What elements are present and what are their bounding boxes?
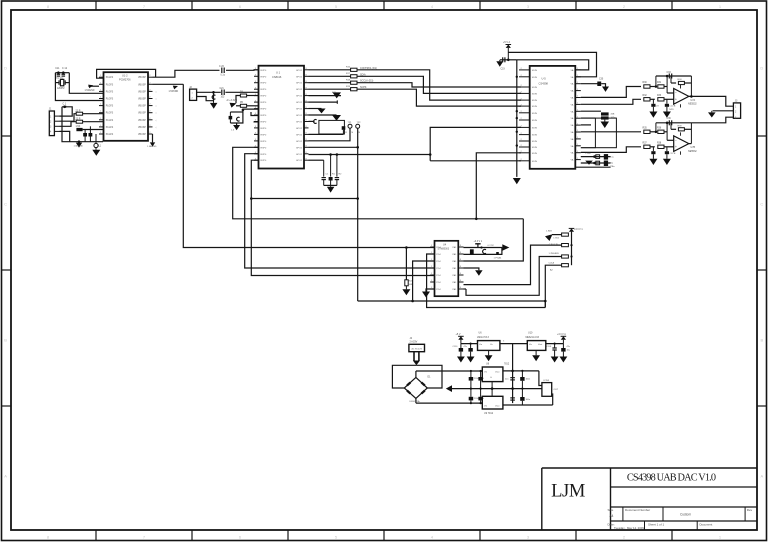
ground arrow xyxy=(551,357,559,363)
U2 right pins xyxy=(148,76,153,78)
opamp input wires xyxy=(667,92,674,94)
capacitor outline xyxy=(596,155,600,159)
svg-text:CS8416: CS8416 xyxy=(272,75,282,79)
svg-text:RXP0: RXP0 xyxy=(261,141,267,143)
U10 gnd xyxy=(535,350,537,355)
cap column with blob xyxy=(309,133,344,135)
svg-text:VBUSP: VBUSP xyxy=(138,84,146,86)
svg-text:Sheet 1 of 1: Sheet 1 of 1 xyxy=(648,522,665,526)
bridge + output up xyxy=(415,371,417,377)
svg-text:RXP0: RXP0 xyxy=(261,122,267,124)
svg-text:GPO2: GPO2 xyxy=(296,160,303,162)
wire U2 out to series cap C20 to U1 pin1 xyxy=(153,70,220,77)
svg-text:SDIN: SDIN xyxy=(532,100,538,102)
svg-text:B: B xyxy=(760,338,763,343)
lower filter caps c13 xyxy=(510,377,515,379)
U2 PCM2706 USB controller xyxy=(104,72,149,141)
wire U1 pin8 stub xyxy=(254,121,259,123)
svg-text:C10 B: C10 B xyxy=(669,106,676,108)
net arrow flag +3.3VD xyxy=(230,103,237,108)
gnd under mute xyxy=(604,120,606,122)
svg-text:GPO2: GPO2 xyxy=(296,109,303,111)
shunt cap C32 with gnd xyxy=(666,99,668,104)
wire U4 pin3R to long loop up to CS4398 xyxy=(464,219,524,261)
wire U4 pin4R small gnd xyxy=(464,268,479,270)
wire U1 pin7 xyxy=(251,112,259,116)
svg-text:CS4398 UAB DAC V1.0: CS4398 UAB DAC V1.0 xyxy=(627,472,716,483)
power flag ladder xyxy=(569,228,574,231)
resistor R39 xyxy=(678,128,684,131)
capacitor outline xyxy=(596,161,600,165)
svg-text:A: A xyxy=(760,474,763,479)
svg-text:Rev: Rev xyxy=(747,508,753,512)
wire loop rectangle xyxy=(319,120,345,134)
wire U1 SDOUT long line to CS4398 xyxy=(309,154,431,156)
J2 2-pin header xyxy=(190,89,197,100)
svg-text:RXP0: RXP0 xyxy=(261,115,267,117)
resistor R33 xyxy=(658,98,664,101)
svg-text:C30: C30 xyxy=(599,79,604,81)
wire R1 to U2 xyxy=(83,113,104,115)
ground arrow under U6reg xyxy=(485,355,493,361)
- rail xyxy=(416,402,482,404)
ground arrow under C24 xyxy=(233,125,240,130)
opamp output node xyxy=(690,76,692,96)
wire U5 AOUTR- xyxy=(581,147,641,153)
svg-text:C 12: C 12 xyxy=(62,67,68,70)
svg-text:VBUSP: VBUSP xyxy=(138,134,146,136)
svg-text:GPO2: GPO2 xyxy=(296,128,303,130)
+5V power flag top xyxy=(506,45,511,48)
border zone ticks top xyxy=(95,1,97,10)
+5V input flag xyxy=(458,336,463,339)
wire U5 AOUTL+ to opamp RC xyxy=(581,87,641,98)
svg-text:B: B xyxy=(4,338,7,343)
svg-text:VBUSP: VBUSP xyxy=(138,91,146,93)
bottom long line to ladder xyxy=(358,300,546,302)
U5 right pins xyxy=(575,69,581,71)
wire R3 to U2 xyxy=(83,129,104,131)
svg-text:45B: 45B xyxy=(611,114,615,116)
wire U1 pin right with gnd arrow A1 xyxy=(309,95,342,97)
capacitor C36 xyxy=(668,120,670,125)
svg-text:GPO2: GPO2 xyxy=(296,134,303,136)
wire R2 to U2 xyxy=(83,121,104,123)
ground arrow under R20 xyxy=(402,289,410,295)
svg-text:R30: R30 xyxy=(643,82,648,84)
U4 controller xyxy=(435,241,459,296)
lower filter caps c14 dark xyxy=(521,371,523,377)
svg-text:12MHZ: 12MHZ xyxy=(57,88,65,90)
wire U4 pin2 loop xyxy=(427,254,546,308)
svg-text:22 R: 22 R xyxy=(76,118,81,120)
+ rail xyxy=(416,370,482,372)
wire -12 to J5 xyxy=(552,393,554,405)
USB connector J1 xyxy=(49,111,54,136)
resistor R5 xyxy=(247,105,259,107)
wire U4 pin3 to bottom line xyxy=(413,261,435,301)
svg-text:VBUSP: VBUSP xyxy=(138,113,146,115)
wire U1 data line 3 with series resistor xyxy=(309,82,351,84)
shunt cap C35 gnd xyxy=(666,147,668,151)
svg-text:1.5K: 1.5K xyxy=(76,126,81,128)
svg-text:GPO2: GPO2 xyxy=(296,154,303,156)
power T flag +3.3V xyxy=(477,244,479,248)
wire U6B output route xyxy=(691,117,733,123)
wire crystal right leg to XTI xyxy=(69,73,103,94)
svg-text:−: − xyxy=(675,139,677,143)
cap C25 xyxy=(323,160,325,176)
svg-text:R31: R31 xyxy=(657,82,662,84)
resistor R37 xyxy=(644,145,650,148)
resistor R31 xyxy=(658,85,664,88)
svg-text:1.5DGND: 1.5DGND xyxy=(74,145,84,147)
svg-text:C33: C33 xyxy=(667,72,672,74)
svg-text:C: C xyxy=(4,202,7,207)
U6B output to J3 xyxy=(690,123,692,144)
test point TP1 xyxy=(309,128,351,141)
wire U6reg out to U10 xyxy=(500,343,527,345)
wire U5 row12 to mute rect corner xyxy=(581,147,596,149)
wire U1 pin15L to under-loop and U4 pin5 xyxy=(251,160,434,275)
svg-text:G: G xyxy=(490,377,492,379)
svg-text:PCM2706: PCM2706 xyxy=(119,78,131,82)
title block row dividers xyxy=(622,507,624,521)
svg-text:GPO2: GPO2 xyxy=(296,96,303,98)
crystal X1 12MHz with load caps C1 C2 xyxy=(55,72,69,74)
svg-text:SDIN: SDIN xyxy=(532,127,538,129)
capacitor blob xyxy=(342,126,346,130)
wire U5 AOUTL- to opamp RC xyxy=(581,99,641,104)
U5 left ground bus xyxy=(516,60,518,177)
svg-text:RXP0: RXP0 xyxy=(261,89,267,91)
svg-text:SDIN: SDIN xyxy=(532,113,538,115)
wire J2 pin2 loop xyxy=(197,92,214,100)
svg-text:+3.3 V 1: +3.3 V 1 xyxy=(474,241,483,243)
svg-text:GPO2: GPO2 xyxy=(296,122,303,124)
net flag mark xyxy=(496,252,499,255)
svg-text:+3.3 V A: +3.3 V A xyxy=(557,333,566,336)
svg-text:SDIN: SDIN xyxy=(532,120,538,122)
net flag +3.3VD near U3 xyxy=(173,86,178,90)
U7 7812 regulator xyxy=(482,367,503,382)
border zone ticks bottom xyxy=(95,530,97,541)
svg-text:RXP0: RXP0 xyxy=(261,83,267,85)
svg-text:PLGFS: PLGFS xyxy=(106,77,114,79)
bridge - output down xyxy=(415,399,417,404)
filter cap bank column2 xyxy=(478,377,483,381)
test point TP2 on long column xyxy=(356,124,360,128)
U1 right pins xyxy=(304,69,309,71)
wire AC loop right xyxy=(416,365,442,388)
decoupling cap C2 xyxy=(83,133,87,137)
svg-text:NE5532: NE5532 xyxy=(688,103,697,106)
svg-text:R35: R35 xyxy=(643,127,648,129)
wire U10 out to +3.3VA flag xyxy=(546,343,564,345)
shunt cap C34 gnd xyxy=(652,147,654,151)
ground arrow C35 xyxy=(663,159,671,165)
svg-text:PLGFS: PLGFS xyxy=(106,106,114,108)
wire AC loop left xyxy=(392,365,416,388)
resistor R1 22R on D- xyxy=(60,114,77,122)
svg-text:R38: R38 xyxy=(657,142,662,144)
mute loop rectangle xyxy=(595,118,616,148)
svg-text:C14B: C14B xyxy=(585,153,591,155)
AC prongs xyxy=(413,352,415,361)
long vertical TP2 column to bottom line xyxy=(357,128,359,301)
svg-text:C19: C19 xyxy=(501,69,506,71)
op-amp U6A xyxy=(674,89,689,105)
svg-text:SDIN: SDIN xyxy=(532,87,538,89)
lower caps cluster under U5 right: row A xyxy=(581,156,611,158)
capacitor blob xyxy=(604,154,608,160)
svg-text:CONTROL (D1): CONTROL (D1) xyxy=(360,67,377,70)
svg-text:A: A xyxy=(4,474,7,479)
svg-text:Vout: Vout xyxy=(538,343,543,346)
wire U4 pin1R power xyxy=(464,247,503,249)
svg-text:PLGFS: PLGFS xyxy=(106,84,114,86)
svg-text:22 R: 22 R xyxy=(76,111,81,113)
svg-text:SCPK: SCPK xyxy=(360,86,367,89)
U8 7912 regulator xyxy=(482,396,503,409)
U1 CS8416 SPDIF receiver xyxy=(259,66,305,169)
svg-text:PLGFS: PLGFS xyxy=(106,134,114,136)
svg-text:SDIN: SDIN xyxy=(532,161,538,163)
svg-text:U 1: U 1 xyxy=(276,71,281,75)
wire crystal left leg to XTO xyxy=(55,73,103,101)
svg-text:PLGFS: PLGFS xyxy=(106,99,114,101)
ground arrow U4 GND xyxy=(422,292,430,298)
svg-text:GPO2: GPO2 xyxy=(296,102,303,104)
riser to CS4398 MCLK row xyxy=(430,127,521,160)
polarized cap C24 xyxy=(237,117,240,121)
svg-text:U9 7912: U9 7912 xyxy=(484,412,494,415)
svg-text:RXP0: RXP0 xyxy=(261,160,267,162)
capacitor C30 blob xyxy=(597,82,601,87)
wire long 218 line riser to CS4398 row xyxy=(476,153,521,219)
caps right of U10 xyxy=(554,344,556,348)
second channel: U5 AOUTR+ xyxy=(581,131,641,133)
AC input connector J4 xyxy=(409,344,425,351)
svg-text:U7B: U7B xyxy=(691,146,696,149)
resistor R20 xyxy=(405,280,408,286)
capacitor blob xyxy=(604,161,608,167)
svg-text:+: + xyxy=(675,145,677,149)
opamp U6B feedback resistor xyxy=(666,123,668,141)
ladder row1 left to gnd flag xyxy=(552,234,562,236)
title block LJM logo box xyxy=(610,468,612,530)
wire R4 left leg xyxy=(236,96,240,104)
svg-text:RXP0: RXP0 xyxy=(261,76,267,78)
svg-text:VBUSP: VBUSP xyxy=(138,99,146,101)
svg-text:SCCLK (D3): SCCLK (D3) xyxy=(360,80,373,83)
wire U5 right pin3 to cap and gnd xyxy=(581,83,598,85)
resistor R24 xyxy=(562,264,569,267)
U5 CS4398 DAC xyxy=(530,66,576,169)
cap C27 xyxy=(336,155,338,177)
svg-text:Custom: Custom xyxy=(680,513,691,517)
dark cap C23 xyxy=(229,116,233,120)
U1 left pins xyxy=(254,69,259,71)
ground arrow near C19 xyxy=(496,61,503,66)
opamp U6B feedback cap xyxy=(656,122,692,124)
svg-text:PLGFS: PLGFS xyxy=(106,91,114,93)
wire U1 pin to cap xyxy=(243,109,259,112)
ground arrow U4 pin4R xyxy=(475,270,483,276)
wire U2 pin to long vertical V1 xyxy=(153,83,184,85)
arrow into bridge xyxy=(413,361,420,366)
svg-text:1.5DGND: 1.5DGND xyxy=(85,90,95,92)
svg-text:+3.3 V 1: +3.3 V 1 xyxy=(574,229,583,231)
svg-text:LT/02: LT/02 xyxy=(554,238,560,240)
svg-text:A/ +3.3VD: A/ +3.3VD xyxy=(227,99,238,102)
capacitor C19 xyxy=(502,57,504,62)
lower caps cluster row B xyxy=(581,162,611,164)
ground arrow under bus xyxy=(513,178,521,184)
resistor R21 xyxy=(562,233,569,236)
svg-text:+: + xyxy=(675,98,677,102)
svg-text:Vout: Vout xyxy=(495,371,500,374)
wire U1 data line 1 with series resistor xyxy=(309,69,351,71)
ground arrow xyxy=(560,357,568,363)
ferrite bead L1 xyxy=(94,143,98,147)
wire row 160.8 to CS4398 xyxy=(430,160,521,162)
wire U4 pin7R to ladder xyxy=(466,257,562,296)
svg-text:C 20: C 20 xyxy=(219,66,225,68)
capacitor C33 xyxy=(668,74,670,79)
ground arrow C31 xyxy=(649,112,657,118)
ground arrow AGND xyxy=(92,150,100,156)
ground arrow C34 xyxy=(649,159,657,165)
svg-text:+5 V: +5 V xyxy=(456,333,461,336)
svg-text:Vout: Vout xyxy=(495,405,500,408)
capacitor C20 xyxy=(221,68,223,74)
opamp U6A feedback resistor R34 xyxy=(666,76,668,93)
svg-text:R32: R32 xyxy=(643,95,648,97)
U4 right pins xyxy=(458,246,463,248)
ground flag under USB xyxy=(78,140,81,143)
svg-text:C11: C11 xyxy=(55,67,60,70)
polarized cap near U1 xyxy=(314,120,317,124)
resistor R3 1.5K pullup xyxy=(76,128,82,131)
opamp power stubs xyxy=(680,85,682,89)
wire bottom line to ladder row4 xyxy=(545,265,561,307)
wire U1 pin13L to long line y=218.8 xyxy=(233,147,524,219)
wire U1 data line 2 with series resistor xyxy=(309,75,351,77)
svg-text:SDIN: SDIN xyxy=(532,147,538,149)
ground arrow xyxy=(467,357,475,363)
U6reg gnd xyxy=(488,350,490,355)
wire U1 data line 4 with series resistor xyxy=(309,88,351,90)
svg-text:RXP0: RXP0 xyxy=(261,134,267,136)
svg-text:LJM: LJM xyxy=(551,481,585,501)
cluster bottom bus xyxy=(576,166,611,168)
output connector J3 xyxy=(733,103,740,118)
svg-text:SDIN: SDIN xyxy=(532,77,538,79)
svg-text:C2LA: C2LA xyxy=(549,262,555,265)
svg-text:VBUSP: VBUSP xyxy=(138,120,146,122)
svg-text:R37: R37 xyxy=(643,142,648,144)
wire with gnd arrow A3 xyxy=(309,108,322,110)
svg-text:0.1T/C: 0.1T/C xyxy=(488,245,495,247)
svg-text:1.7B04RN: 1.7B04RN xyxy=(549,253,560,255)
U6reg LM1117-3.3 xyxy=(478,341,500,351)
U7 gnd leg xyxy=(491,382,493,389)
svg-text:SDIN: SDIN xyxy=(532,153,538,155)
svg-text:SDIN: SDIN xyxy=(532,106,538,108)
svg-text:0.1u: 0.1u xyxy=(221,75,226,77)
svg-text:C101: C101 xyxy=(547,346,553,348)
svg-text:GPO2: GPO2 xyxy=(296,147,303,149)
svg-text:GPO2: GPO2 xyxy=(296,89,303,91)
resistor R35 xyxy=(644,130,650,133)
svg-text:−: − xyxy=(675,91,677,95)
ground arrow mute xyxy=(601,122,610,129)
svg-text:D: D xyxy=(4,66,7,71)
decoupling cap C3 xyxy=(89,133,93,137)
wire U1 pin14L to U4 pin4 xyxy=(245,154,435,268)
svg-text:PLGFS: PLGFS xyxy=(106,113,114,115)
svg-text:U1-2: U1-2 xyxy=(122,74,128,78)
filter cap bank column1 xyxy=(469,377,474,381)
svg-text:PLGFS: PLGFS xyxy=(106,127,114,129)
svg-text:NE5532: NE5532 xyxy=(688,150,697,153)
wire U4 pin2R loop xyxy=(464,248,502,255)
wire with gnd arrow A2 xyxy=(309,114,337,116)
ground arrow under caps xyxy=(327,187,335,193)
svg-text:+5 V A: +5 V A xyxy=(503,41,511,44)
resistor R2 22R on D+ xyxy=(60,122,77,127)
wire U6A output to J3 xyxy=(689,96,734,106)
svg-text:VBUSP: VBUSP xyxy=(138,127,146,129)
capacitor C11 plates xyxy=(57,73,61,75)
svg-text:SDIN: SDIN xyxy=(532,135,538,137)
svg-text:U10: U10 xyxy=(528,332,533,335)
svg-text:RXP0: RXP0 xyxy=(261,102,267,104)
svg-text:C21: C21 xyxy=(220,88,225,90)
svg-text:Document Number: Document Number xyxy=(625,508,650,512)
U10 ME6211 xyxy=(527,341,546,351)
svg-text:VBUSP: VBUSP xyxy=(138,77,146,79)
U8 gnd leg xyxy=(491,389,493,397)
svg-text:CON3: CON3 xyxy=(543,380,550,382)
U2 right bottom AGND flag xyxy=(152,134,154,142)
svg-text:1.PGA4: 1.PGA4 xyxy=(494,256,502,259)
svg-text:ME6211-C33: ME6211-C33 xyxy=(526,337,540,339)
ground arrow right of U5 xyxy=(602,87,609,92)
resistor R4 xyxy=(247,95,259,97)
gnd bus under caps xyxy=(324,184,337,186)
ground arrow at J3 xyxy=(713,110,734,112)
svg-text:4.7K/4.7K: 4.7K/4.7K xyxy=(549,244,559,246)
resistor R20 pulldown and gnd xyxy=(405,248,407,280)
op-amp U6B xyxy=(674,136,689,152)
resistor R23 xyxy=(562,255,569,258)
title block rows xyxy=(611,486,758,488)
ground arrow xyxy=(457,357,465,363)
U4 left pins xyxy=(430,246,434,248)
svg-text:GPO2: GPO2 xyxy=(296,115,303,117)
svg-text:C110: C110 xyxy=(453,346,459,348)
under-loop wire xyxy=(251,198,357,200)
polarized cap C22 on J2 node xyxy=(212,95,215,99)
-12 rail from U8 xyxy=(503,404,553,406)
long wire V1 down to U4 pin1 xyxy=(183,84,434,247)
svg-text:U7A: U7A xyxy=(691,99,696,102)
svg-text:2 AC9V: 2 AC9V xyxy=(410,340,418,343)
ground arrow cluster xyxy=(585,161,593,165)
capacitor blob xyxy=(470,249,474,254)
